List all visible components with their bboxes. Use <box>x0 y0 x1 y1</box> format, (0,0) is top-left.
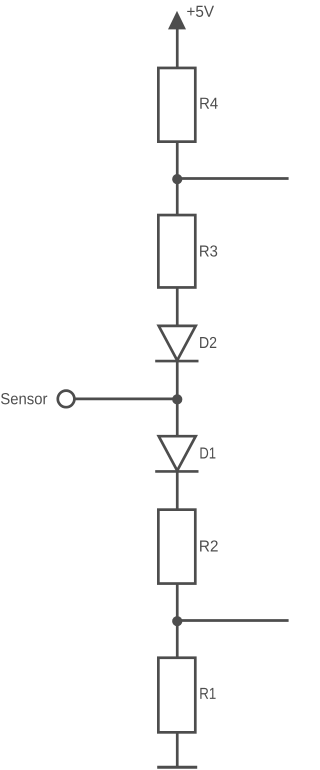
resistor R2 <box>158 510 195 584</box>
junction node1 <box>172 174 182 184</box>
wire Sensor terminal to node <box>76 398 178 401</box>
resistor R4 <box>158 68 195 142</box>
junction node Sensor <box>172 394 182 404</box>
label R2 <box>200 540 218 551</box>
wire D2 cathode to D1 anode through sensor node <box>176 361 179 437</box>
wire D1 cathode to R2 top <box>176 471 179 510</box>
power +5V arrow symbol <box>168 11 186 30</box>
resistor R1 <box>158 658 195 733</box>
wire +5V stem <box>176 29 179 69</box>
wire R1 bottom to ground bar <box>176 732 179 767</box>
diode D2 triangle <box>159 326 196 361</box>
diode D2 cathode bar <box>155 360 198 363</box>
label Sensor <box>1 393 47 404</box>
wire R2 bottom to R1 top through node <box>176 583 179 658</box>
diode D1 cathode bar <box>155 470 198 473</box>
wire R4 bottom to R3 top through node <box>176 142 179 216</box>
wire node2 horizontal to right edge <box>177 619 288 622</box>
label R4 <box>200 98 217 109</box>
label D1 <box>200 447 215 458</box>
resistor R3 <box>158 215 195 287</box>
ground bar <box>157 766 197 769</box>
diode D1 triangle <box>159 436 196 471</box>
junction node2 <box>172 616 182 626</box>
label R3 <box>200 245 217 256</box>
label +5V <box>187 6 214 17</box>
label D2 <box>200 337 216 348</box>
wire R3 bottom to D2 anode <box>176 287 179 327</box>
terminal Sensor circle <box>58 391 75 408</box>
wire node1 horizontal to right edge <box>177 177 288 180</box>
label R1 <box>200 688 215 699</box>
